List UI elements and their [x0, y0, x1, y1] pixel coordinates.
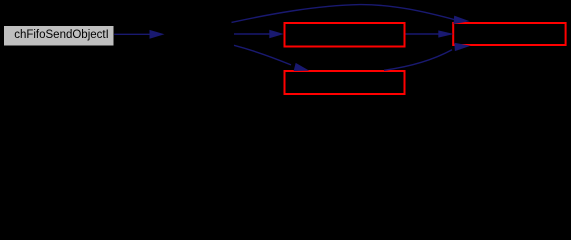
node red box 2 (right) — [453, 23, 565, 45]
edge C: middle node -> red box 2 (top curve) — [232, 5, 470, 24]
edge F: red box 3 -> red box 2 — [384, 43, 471, 71]
edge A: grey box -> middle node — [114, 30, 164, 39]
edge E: red box 1 -> red box 2 — [406, 30, 454, 37]
node red box 3 (bottom) — [285, 71, 405, 94]
node chFifoSendObjectI (current, grey) — [4, 26, 115, 47]
node red box 1 (top middle) — [285, 23, 405, 47]
edge D: middle node -> red box 3 — [234, 45, 309, 71]
svg-text:chFifoSendObjectI: chFifoSendObjectI — [14, 29, 109, 41]
edge B: middle node -> red box 1 — [234, 30, 284, 38]
